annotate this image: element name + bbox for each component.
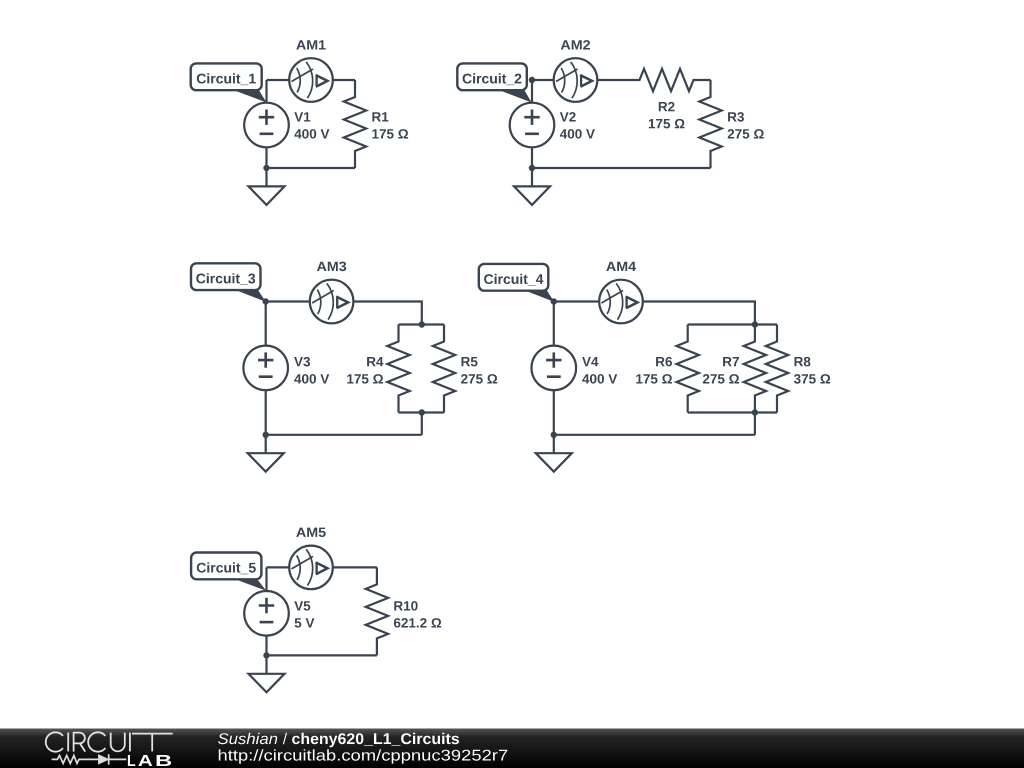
node tag Circuit_5 pointer	[231, 578, 266, 591]
node junction dot bottom circuit 3	[263, 432, 269, 438]
node junction dot bottom circuit 4	[551, 432, 557, 438]
wire bottom rail circuit 3	[266, 434, 422, 436]
node junction dot parallel top circuit 3	[419, 321, 425, 327]
label R3 value	[728, 112, 744, 122]
logo letter C	[46, 732, 63, 751]
label AM4	[606, 262, 636, 271]
resistor R6	[677, 325, 699, 413]
wire bottom rail circuit 4	[554, 434, 755, 436]
resistor R5	[433, 325, 455, 413]
node tag Circuit_4 pointer	[521, 289, 554, 302]
node junction dot bottom circuit 2	[529, 165, 535, 171]
label R6 value	[656, 357, 672, 367]
wire parallel top bar circuit 3	[399, 323, 445, 325]
ground circuit 1	[249, 168, 285, 205]
voltage source V4	[532, 346, 577, 391]
resistor R2	[623, 69, 711, 91]
resistor R3	[699, 80, 721, 168]
node junction dot parallel bottom circuit 3	[419, 409, 425, 415]
node tag Circuit_5 box	[191, 553, 261, 580]
wire bottom link circuit 4	[754, 413, 756, 435]
node junction dot top circuit 3	[263, 298, 269, 304]
node tag Circuit_1 pointer	[232, 90, 267, 103]
node junction dot parallel top circuit 4	[752, 321, 758, 327]
label R4 value	[367, 357, 383, 366]
op-amp ammeter AM5	[289, 546, 333, 590]
logo letter C	[88, 732, 105, 751]
wire left branch V3 circuit 3	[265, 302, 267, 435]
wire left branch V5 circuit 5	[265, 567, 267, 655]
label V5 value	[294, 601, 310, 610]
footer url line	[219, 749, 508, 763]
resistor R10	[366, 567, 388, 655]
op-amp ammeter AM3	[310, 280, 354, 324]
node tag Circuit_4 box	[479, 264, 549, 291]
label R5 value	[462, 357, 478, 366]
node junction dot top circuit 2	[529, 77, 535, 83]
ground circuit 3	[248, 435, 284, 472]
node tag Circuit_1 box	[191, 63, 262, 90]
label AM1	[296, 40, 325, 49]
wire parallel bottom bar circuit 3	[399, 411, 445, 413]
label AM5	[296, 528, 325, 537]
ground circuit 5	[249, 655, 285, 692]
footer title line	[218, 733, 459, 747]
resistor R1	[344, 80, 366, 168]
label R2 value	[659, 102, 675, 111]
wire top rail circuit 5	[267, 566, 377, 568]
wire bottom link circuit 3	[421, 413, 423, 435]
logo LAB text	[128, 755, 171, 766]
node tag Circuit_2 pointer	[498, 90, 532, 103]
wire top rail circuit 4	[554, 302, 755, 325]
label V2 value	[560, 112, 576, 121]
voltage source V5	[244, 591, 289, 636]
wire top rail circuit 3	[266, 302, 422, 325]
op-amp ammeter AM4	[599, 280, 643, 324]
label AM3	[317, 262, 346, 272]
resistor R4	[387, 325, 409, 413]
voltage source V2	[510, 103, 555, 148]
wire parallel top bar circuit 4	[688, 323, 777, 325]
wire bottom rail circuit 1	[267, 167, 356, 169]
logo letter I	[129, 733, 131, 752]
logo letter T	[132, 734, 173, 752]
wire parallel bottom bar circuit 4	[688, 411, 777, 413]
label AM2	[561, 40, 590, 49]
wire top rail circuit 1	[267, 79, 356, 81]
wire top rail circuit 2	[532, 79, 623, 81]
label R8 value	[795, 357, 811, 367]
node junction dot top circuit 4	[551, 298, 557, 304]
logo diode triangle	[99, 755, 109, 764]
label V3 value	[294, 357, 310, 367]
wire right branch circuit 2	[709, 79, 711, 82]
logo letter I	[67, 733, 69, 752]
label R1 value	[372, 112, 388, 121]
voltage source V3	[243, 346, 288, 391]
resistor R8	[766, 325, 788, 413]
logo letter U	[111, 733, 125, 752]
node junction dot circuit 5	[263, 652, 269, 658]
wire left branch V4 circuit 4	[553, 302, 555, 435]
node tag Circuit_2 box	[457, 63, 527, 90]
wire left branch V1 circuit 1	[265, 80, 267, 168]
node junction dot parallel bottom circuit 4	[752, 409, 758, 415]
logo letter R	[74, 733, 86, 752]
label R10 value	[394, 601, 417, 611]
resistor R7	[744, 325, 766, 413]
wire left branch V2 circuit 2	[531, 80, 533, 168]
op-amp ammeter AM2	[554, 58, 598, 102]
node junction dot circuit 1	[263, 165, 269, 171]
ground circuit 2	[514, 168, 550, 205]
label V4 value	[582, 357, 598, 366]
voltage source V1	[244, 103, 289, 148]
label R7 value	[723, 357, 739, 366]
wire bottom rail circuit 2	[532, 167, 711, 169]
logo resistor diode squiggle	[52, 754, 127, 764]
op-amp ammeter AM1	[289, 58, 333, 102]
wire bottom rail circuit 5	[267, 654, 377, 656]
label V1 value	[294, 112, 310, 121]
footer bar	[0, 729, 1024, 768]
node tag Circuit_3 box	[191, 263, 261, 290]
logo CIRCUIT wordmark	[46, 732, 173, 751]
ground circuit 4	[536, 435, 572, 472]
node tag Circuit_3 pointer	[232, 289, 266, 302]
